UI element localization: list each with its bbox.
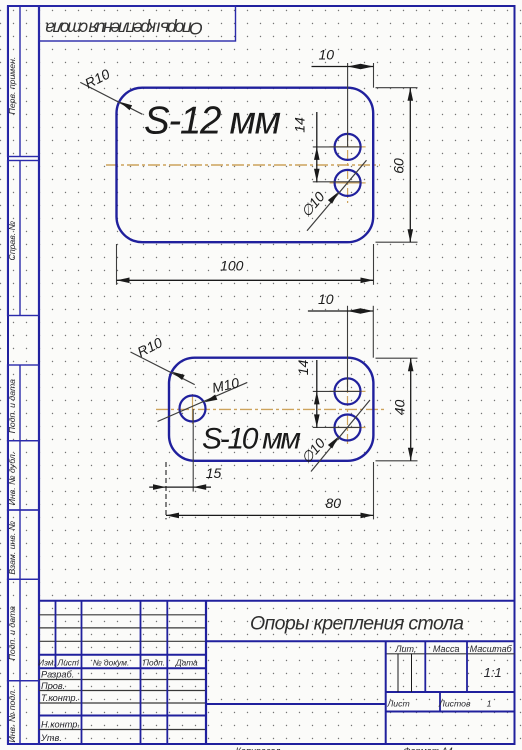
title block top edge <box>39 600 515 602</box>
side field: Перв. примен. <box>7 6 39 157</box>
svg-text:Т.контр.: Т.контр. <box>41 693 78 703</box>
svg-text:Перв. примен.: Перв. примен. <box>7 57 17 115</box>
svg-text:Опоры крепления стола: Опоры крепления стола <box>250 613 464 635</box>
title block vertical изм/лист <box>55 601 57 669</box>
svg-text:Подп. и дата: Подп. и дата <box>7 606 17 661</box>
лит header underline <box>387 653 515 655</box>
title block header row bottom <box>39 667 206 669</box>
header cell labels изм лист № докум подп дата <box>38 658 198 668</box>
main frame left line <box>38 6 40 744</box>
svg-text:14: 14 <box>292 117 308 133</box>
svg-text:Лист: Лист <box>57 658 79 668</box>
radius leader R10 (plate 2) line <box>131 352 195 385</box>
svg-text:Инв. № дубл.: Инв. № дубл. <box>7 452 17 505</box>
title block row line 3 / designation cell bottom <box>39 640 206 642</box>
svg-text:15: 15 <box>206 465 222 481</box>
svg-text:100: 100 <box>220 258 244 274</box>
svg-text:Подп. и дата: Подп. и дата <box>7 379 17 434</box>
svg-text:40: 40 <box>392 400 408 416</box>
plate 1 hole upper circle <box>335 134 361 160</box>
side field: Подп. и дата (lower) <box>7 579 39 680</box>
dimension 100 (plate 1): right extension <box>373 244 375 285</box>
svg-text:Справ. №: Справ. № <box>7 221 17 261</box>
svg-text:Взам. инв. №: Взам. инв. № <box>7 521 17 575</box>
title block vertical лист/докум <box>81 601 83 744</box>
top designation box with 180deg rotated title <box>39 6 236 41</box>
dimension 14 (plate 1): dimension line <box>316 112 318 182</box>
title block vertical подп/дата <box>166 601 168 744</box>
svg-text:Инв. № подл.: Инв. № подл. <box>7 689 17 743</box>
графа 1 bottom line <box>206 703 386 705</box>
plate 1 outline rounded rectangle <box>117 88 374 243</box>
svg-text:1: 1 <box>487 699 492 709</box>
dimension 10 (plate 1 top): extension axis line <box>347 63 349 147</box>
plate 2 right holes vertical centerline <box>347 377 349 447</box>
plate 2 right hole lower circle <box>335 415 361 441</box>
svg-text:Формат А4: Формат А4 <box>403 746 452 750</box>
svg-text:Масса: Масса <box>433 644 460 654</box>
title block vertical лит/масса <box>424 641 426 692</box>
title block header row top <box>39 654 206 656</box>
plate 1 hole lower circle <box>335 170 361 196</box>
plate 1 centerline horizontal <box>106 164 380 166</box>
dimension 14 (plate 2): upper extension <box>313 390 361 392</box>
dimension 10 (plate 1) dimension line <box>312 66 374 68</box>
diameter leader ф10 (plate 2) line <box>311 400 370 472</box>
title block vertical масса/масштаб <box>466 641 468 692</box>
plate 1 hole axis vertical centerline <box>347 131 349 203</box>
title block row line 1 <box>39 614 206 616</box>
side field: Справ. № <box>7 161 39 316</box>
svg-text:Пров.: Пров. <box>41 681 65 691</box>
dimension 14 (plate 2): dimension line <box>316 360 318 428</box>
plate 2 right hole 2 horizontal centerline <box>330 427 366 429</box>
dimension 60 (plate 1): bottom extension <box>376 241 418 243</box>
svg-text:Разраб.: Разраб. <box>41 670 74 680</box>
plate 2 M10 threaded hole circle <box>180 396 206 422</box>
plate 1 hole 1 horizontal centerline <box>330 146 366 148</box>
radius leader R10 (plate 1) line <box>80 82 142 114</box>
dimension 80 (plate 2): right extension <box>373 462 375 519</box>
svg-text:№ докум.: № докум. <box>93 658 130 668</box>
svg-text:Масштаб: Масштаб <box>470 644 513 654</box>
dimension 10 (plate 2 top): extension axis line <box>347 306 349 392</box>
лит subdivision line 1 <box>397 654 399 692</box>
dimension 10 (plate 2) dimension line <box>308 310 373 312</box>
dimension 40 (plate 2): top extension <box>376 357 418 359</box>
dimension 10 (plate 2) right extension <box>372 306 374 358</box>
dimension 100 (plate 1): dimension line <box>117 279 374 281</box>
dimension 60 (plate 1): top extension <box>376 87 418 89</box>
dimension 14 (plate 1): lower extension <box>313 181 361 183</box>
plate 2 right hole upper circle <box>335 378 361 404</box>
dimension 60 (plate 1): dimension line <box>409 88 411 243</box>
plate 2 right hole 1 horizontal centerline <box>330 390 366 392</box>
svg-text:1:1: 1:1 <box>484 665 502 680</box>
dimension 14 (plate 1): upper extension <box>313 146 361 148</box>
svg-text:Утв.: Утв. <box>40 733 62 743</box>
dimension 40 (plate 2): bottom extension <box>376 460 418 462</box>
middle blue separator row line <box>39 715 206 717</box>
svg-text:Изм.: Изм. <box>38 658 56 668</box>
side field: Инв. № подл. <box>7 681 39 744</box>
dimension 15 (plate 2): left dashed extension <box>165 462 167 519</box>
side field: Взам. инв. № <box>7 510 39 579</box>
title block vertical дата/name <box>205 601 207 744</box>
лит subdivision line 2 <box>411 654 413 692</box>
dimension 40 (plate 2): dimension line <box>410 358 412 461</box>
лит block bottom line <box>386 691 515 693</box>
пров row line <box>39 690 206 692</box>
side field: Подп. и дата (upper) <box>7 365 39 441</box>
plate 2 outline rounded rectangle <box>169 358 373 461</box>
thread leader M10 (plate 2) line <box>158 382 248 421</box>
svg-text:14: 14 <box>295 360 311 376</box>
т.контр row line <box>39 702 206 704</box>
svg-text:S-10 мм: S-10 мм <box>202 423 301 456</box>
svg-text:Опоры крепления стола: Опоры крепления стола <box>45 19 203 39</box>
dimension 10 (plate 1) right extension <box>373 63 375 88</box>
разраб row line <box>39 679 206 681</box>
dimension 100 (plate 1): left extension <box>116 244 118 285</box>
plate 2 M10 hole vertical centerline <box>192 394 194 424</box>
svg-text:80: 80 <box>326 495 342 511</box>
svg-text:10: 10 <box>319 47 335 63</box>
title block row line 2 <box>39 627 206 629</box>
svg-text:Дата: Дата <box>175 658 198 668</box>
лист row bottom line <box>386 711 515 713</box>
dimension 15 (plate 2): hole axis extension <box>192 409 194 492</box>
svg-text:Лит,: Лит, <box>394 644 416 654</box>
plate 2 centerline horizontal <box>156 408 386 410</box>
title block vertical name/лит <box>385 641 387 744</box>
diameter leader ф10 (plate 1) line <box>307 160 367 231</box>
svg-text:Подп.: Подп. <box>143 658 165 668</box>
title block vertical докум/подп <box>140 601 142 744</box>
title block vertical лист/листов <box>439 692 441 712</box>
side field: Инв. № дубл. <box>7 441 39 510</box>
svg-text:Н.контр.: Н.контр. <box>41 719 80 729</box>
plate 1 hole 2 horizontal centerline <box>330 182 366 184</box>
svg-text:Лист: Лист <box>386 699 409 709</box>
dimension 80 (plate 2): dimension line <box>166 514 374 516</box>
svg-text:60: 60 <box>391 158 407 174</box>
dimension 14 (plate 2): lower extension <box>313 426 361 428</box>
н.контр row line <box>39 729 206 731</box>
svg-text:S-12 мм: S-12 мм <box>144 100 281 143</box>
svg-text:10: 10 <box>318 291 334 307</box>
dimension 15 (plate 2): dimension line <box>149 486 211 488</box>
svg-text:Листов: Листов <box>438 699 471 709</box>
svg-text:Копировал: Копировал <box>236 746 281 750</box>
